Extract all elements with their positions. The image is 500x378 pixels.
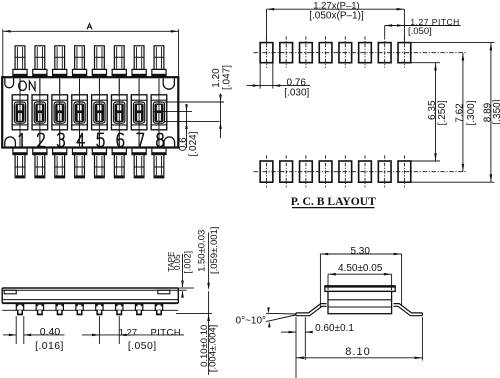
svg-text:[.030]: [.030] xyxy=(284,88,309,99)
svg-text:0.05: 0.05 xyxy=(173,254,182,270)
svg-text:5.30: 5.30 xyxy=(350,246,370,257)
svg-text:7.62: 7.62 xyxy=(454,103,465,123)
svg-text:[.002]: [.002] xyxy=(183,251,193,274)
svg-text:[.300]: [.300] xyxy=(466,100,477,125)
svg-text:[.050]: [.050] xyxy=(408,26,432,37)
svg-text:[.350]: [.350] xyxy=(492,99,500,124)
svg-text:[.016]: [.016] xyxy=(35,340,64,352)
svg-text:8.10: 8.10 xyxy=(345,346,370,358)
svg-text:0.40: 0.40 xyxy=(40,326,61,338)
svg-text:[.004±.004]: [.004±.004] xyxy=(207,325,218,372)
svg-text:4.50±0.05: 4.50±0.05 xyxy=(338,263,383,274)
svg-text:[.059±.001]: [.059±.001] xyxy=(209,227,220,274)
svg-text:0°~10°: 0°~10° xyxy=(236,315,267,326)
svg-text:1.27: 1.27 xyxy=(119,327,138,338)
svg-text:[.250]: [.250] xyxy=(437,100,448,125)
svg-text:1.50±0.03: 1.50±0.03 xyxy=(197,230,208,272)
svg-text:1.20: 1.20 xyxy=(211,68,222,88)
svg-text:[.024]: [.024] xyxy=(188,131,199,156)
svg-text:[.050x(P–1)]: [.050x(P–1)] xyxy=(309,11,364,22)
svg-text:[.050]: [.050] xyxy=(128,340,157,352)
svg-text:[.047]: [.047] xyxy=(222,65,233,90)
svg-text:P. C. B LAYOUT: P. C. B LAYOUT xyxy=(291,195,376,208)
svg-text:PITCH: PITCH xyxy=(151,327,182,338)
svg-text:0.60±0.1: 0.60±0.1 xyxy=(315,323,354,334)
